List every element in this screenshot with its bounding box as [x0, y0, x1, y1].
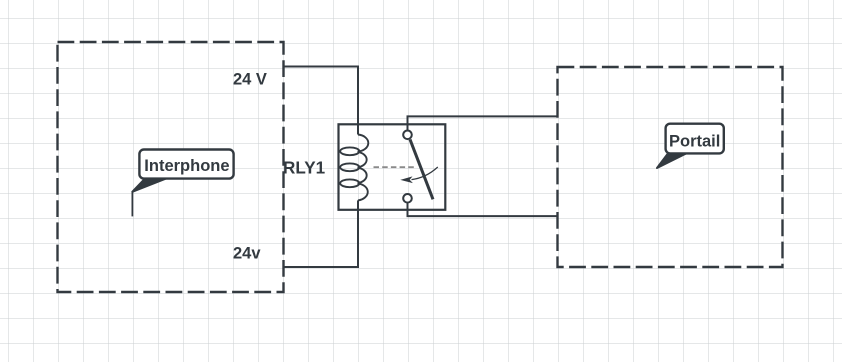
- switch contact (bottom circle): [403, 194, 412, 203]
- svg-text:Interphone: Interphone: [144, 157, 229, 175]
- wire: 24v return from Interphone box to relay coil bottom: [284, 209, 359, 267]
- relay coil: feed and spiral: [340, 124, 368, 210]
- wire: relay bottom contact to Portail box: [408, 203, 558, 217]
- dashed enclosure box: Portail: [558, 67, 783, 267]
- wire: relay top contact to Portail box: [408, 116, 558, 130]
- svg-text:Portail: Portail: [669, 132, 720, 150]
- dashed enclosure box: Interphone: [58, 42, 284, 292]
- wire: 24 V supply from Interphone box to relay coil top: [284, 67, 359, 126]
- svg-text:RLY1: RLY1: [283, 159, 326, 178]
- dashed mechanical link between coil and switch blade: [374, 166, 415, 168]
- svg-text:24 V: 24 V: [233, 71, 267, 89]
- relay RLY1 body: [339, 124, 446, 210]
- callout label: Portail (bubble + pointer): [657, 124, 724, 168]
- switch common contact (top circle): [403, 131, 412, 140]
- switch blade: [410, 139, 433, 199]
- svg-text:24v: 24v: [233, 245, 261, 263]
- actuation arrow (curved, pointing left): [412, 167, 438, 180]
- callout label: Interphone (bubble + pointer + leader line): [132, 150, 233, 217]
